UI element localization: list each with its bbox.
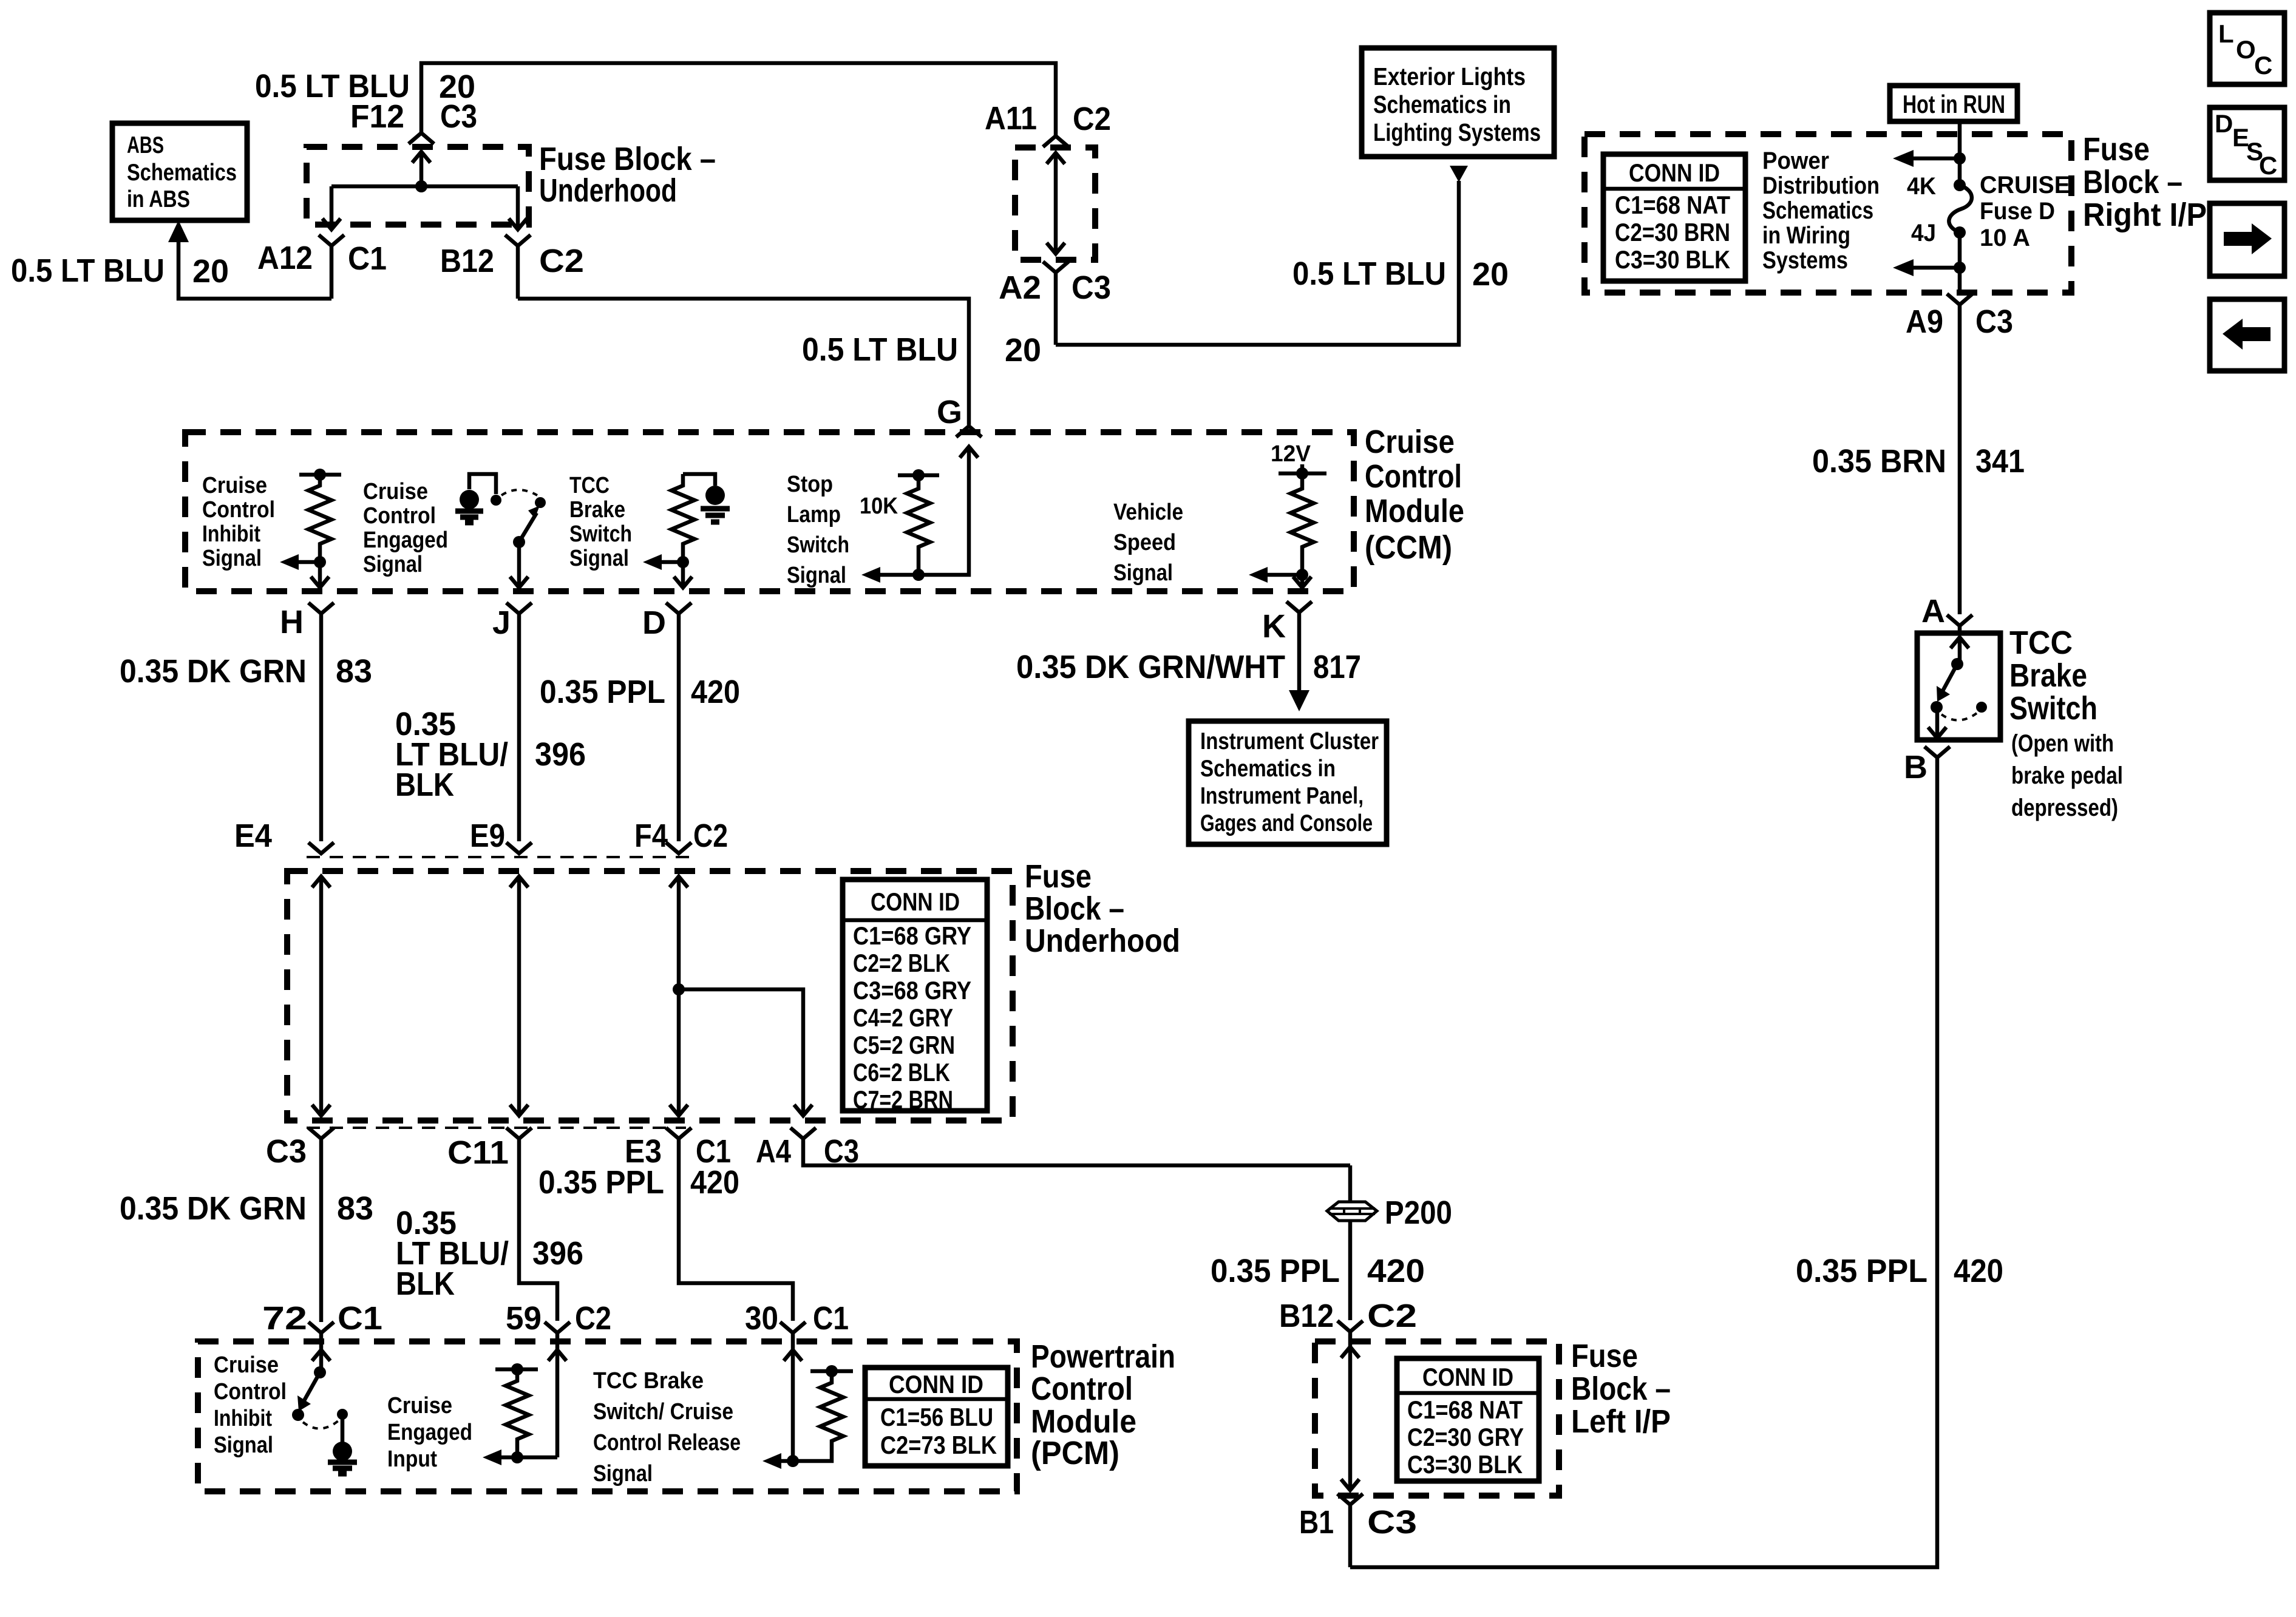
svg-text:Module: Module xyxy=(1365,493,1464,529)
thin dashed connector line (top row) xyxy=(307,856,695,858)
svg-text:C7=2 BRN: C7=2 BRN xyxy=(853,1085,953,1114)
svg-text:B1: B1 xyxy=(1299,1504,1334,1541)
svg-text:Signal: Signal xyxy=(569,546,629,571)
label Cruise Control Engaged Signal (CCM) xyxy=(363,479,448,577)
svg-text:C3: C3 xyxy=(440,98,477,135)
svg-text:C2: C2 xyxy=(575,1300,611,1337)
svg-text:O: O xyxy=(2236,35,2256,64)
svg-text:C3: C3 xyxy=(1072,269,1111,306)
svg-text:20: 20 xyxy=(1472,256,1509,293)
connector 30/C1 at PCM xyxy=(745,1300,849,1337)
arrow left bottom xyxy=(1909,266,1960,270)
svg-text:A2: A2 xyxy=(999,269,1041,306)
svg-text:420: 420 xyxy=(691,674,740,710)
PCM resistor: cruise engaged input xyxy=(483,1333,566,1465)
svg-text:C2=2 BLK: C2=2 BLK xyxy=(853,949,950,977)
wire A4/C3 down to left I/P xyxy=(1348,1165,1353,1320)
svg-text:0.35 PPL: 0.35 PPL xyxy=(538,1164,664,1201)
splice P200 xyxy=(1327,1195,1452,1231)
wire bottom run B1 to TCC brake switch B xyxy=(1350,758,1937,1567)
svg-text:BLK: BLK xyxy=(395,767,454,803)
arrow from Exterior Lights box xyxy=(1450,166,1468,182)
svg-text:Fuse Block –: Fuse Block – xyxy=(539,141,716,177)
svg-text:J: J xyxy=(492,605,511,641)
branch down to A12 with arrow xyxy=(322,186,341,229)
connector F4/C2 xyxy=(634,818,728,854)
svg-text:C3=68 GRY: C3=68 GRY xyxy=(853,976,971,1005)
svg-text:C3: C3 xyxy=(266,1133,307,1170)
svg-text:30: 30 xyxy=(745,1300,778,1337)
svg-text:Cruise: Cruise xyxy=(363,479,428,504)
label TCC Brake Switch/ Cruise Control Release Signal (PCM) xyxy=(593,1368,741,1486)
CCM resistor: stop lamp switch signal 10K xyxy=(861,447,978,583)
svg-text:C1=68 GRY: C1=68 GRY xyxy=(853,921,971,950)
svg-text:Switch/ Cruise: Switch/ Cruise xyxy=(593,1399,733,1425)
svg-text:0.35 DK GRN/WHT: 0.35 DK GRN/WHT xyxy=(1016,649,1285,685)
svg-text:C6=2 BLK: C6=2 BLK xyxy=(853,1058,950,1086)
fuse block right I/P (power distribution) dashed box xyxy=(1584,134,2071,293)
wire to ABS with arrow xyxy=(168,220,331,299)
connector C3 below underhood (H wire) xyxy=(266,1128,334,1322)
wire J through underhood block arrows both ends xyxy=(510,876,528,1116)
svg-text:G: G xyxy=(937,394,962,430)
svg-text:817: 817 xyxy=(1313,649,1361,685)
svg-text:Underhood: Underhood xyxy=(539,172,677,209)
svg-text:420: 420 xyxy=(1954,1253,2003,1289)
left arrow legend box xyxy=(2210,299,2284,371)
fuse block left I/P dashed box xyxy=(1315,1341,1559,1496)
svg-text:Instrument Panel,: Instrument Panel, xyxy=(1200,783,1364,809)
svg-text:E9: E9 xyxy=(470,818,505,854)
svg-text:Signal: Signal xyxy=(1113,560,1173,586)
right arrow legend box xyxy=(2210,203,2284,276)
svg-text:C2: C2 xyxy=(539,243,584,279)
connector B1/C3 xyxy=(1299,1494,1417,1567)
ABS Schematics reference box xyxy=(112,123,247,220)
svg-text:0.5 LT BLU: 0.5 LT BLU xyxy=(1292,256,1446,292)
connector C11 below underhood (J wire) xyxy=(447,1128,557,1321)
svg-text:Power: Power xyxy=(1762,147,1829,174)
wire below fuse xyxy=(1958,232,1962,293)
svg-text:Cruise: Cruise xyxy=(1365,424,1455,460)
connector G at CCM top xyxy=(956,426,982,437)
svg-text:E4: E4 xyxy=(234,818,272,854)
svg-text:Distribution: Distribution xyxy=(1762,172,1880,199)
svg-text:CONN ID: CONN ID xyxy=(889,1370,983,1398)
svg-text:C1: C1 xyxy=(348,240,387,277)
svg-text:C2=30 GRY: C2=30 GRY xyxy=(1407,1423,1524,1451)
connector A9/C3 xyxy=(1906,294,2013,614)
svg-text:C2=73 BLK: C2=73 BLK xyxy=(880,1431,997,1459)
TCC brake switch box with switch xyxy=(1917,626,2000,740)
svg-text:72: 72 xyxy=(262,1300,307,1337)
CONN ID table (left I/P) xyxy=(1397,1358,1539,1481)
svg-text:59: 59 xyxy=(506,1300,542,1337)
svg-text:D: D xyxy=(2215,109,2233,138)
svg-text:Fuse: Fuse xyxy=(1571,1338,1638,1374)
svg-text:Signal: Signal xyxy=(214,1432,273,1458)
DESC legend box xyxy=(2210,107,2284,180)
Hot in RUN box xyxy=(1890,86,2017,121)
svg-text:C1: C1 xyxy=(813,1300,849,1337)
svg-text:C3: C3 xyxy=(824,1133,859,1170)
svg-text:Hot in RUN: Hot in RUN xyxy=(1903,90,2005,118)
label TCC Brake Switch (Open with brake pedal depressed) xyxy=(2009,625,2123,821)
fuse CRUISE Fuse D 10 A xyxy=(1907,172,2070,251)
svg-text:brake pedal: brake pedal xyxy=(2011,762,2123,789)
Powertrain Control Module (PCM) dashed box xyxy=(198,1341,1017,1491)
svg-text:Systems: Systems xyxy=(1762,247,1848,274)
svg-text:420: 420 xyxy=(690,1164,739,1201)
svg-text:BLK: BLK xyxy=(396,1266,455,1302)
svg-text:B: B xyxy=(1904,749,1927,785)
svg-text:C11: C11 xyxy=(447,1134,509,1171)
svg-text:0.35 DK GRN: 0.35 DK GRN xyxy=(120,1190,307,1227)
wire A2 to Exterior Lights xyxy=(1056,181,1459,345)
connector A11/C2 xyxy=(985,100,1111,147)
wire through A11 block with arrows both ends xyxy=(1047,153,1065,254)
svg-text:Control: Control xyxy=(1031,1371,1133,1407)
junction dot on D wire xyxy=(673,983,685,995)
svg-text:Cruise: Cruise xyxy=(387,1393,452,1419)
svg-text:in ABS: in ABS xyxy=(127,186,190,212)
wire H through underhood block arrows both ends xyxy=(312,876,330,1116)
svg-text:C5=2 GRN: C5=2 GRN xyxy=(853,1031,955,1059)
CCM resistor: TCC brake switch signal with ground xyxy=(643,474,730,588)
svg-text:420: 420 xyxy=(1367,1253,1425,1289)
svg-text:Exterior Lights: Exterior Lights xyxy=(1373,63,1526,90)
arrow left top xyxy=(1909,157,1960,161)
svg-text:A11: A11 xyxy=(985,100,1037,137)
svg-text:0.5 LT BLU: 0.5 LT BLU xyxy=(11,253,165,289)
arrow into instrument cluster xyxy=(1289,690,1309,711)
connector 72/C1 at PCM xyxy=(262,1300,382,1337)
svg-text:4K: 4K xyxy=(1907,173,1936,200)
svg-text:Control Release: Control Release xyxy=(593,1430,741,1456)
Cruise Control Module (CCM) dashed box xyxy=(185,432,1354,591)
svg-text:Control: Control xyxy=(363,503,436,529)
connector 59/C2 at PCM xyxy=(506,1300,611,1337)
svg-text:396: 396 xyxy=(532,1235,583,1272)
svg-text:A9: A9 xyxy=(1906,303,1943,340)
PCM resistor: TCC brake switch / cruise control release xyxy=(763,1333,853,1469)
svg-text:Schematics: Schematics xyxy=(1762,197,1873,224)
svg-text:Speed: Speed xyxy=(1113,530,1176,555)
svg-text:F4: F4 xyxy=(634,818,668,854)
connector A12/C1 xyxy=(257,235,387,299)
svg-text:12V: 12V xyxy=(1271,441,1311,467)
label Cruise Engaged Input (PCM) xyxy=(387,1393,472,1472)
svg-text:B12: B12 xyxy=(1279,1298,1334,1334)
svg-text:A: A xyxy=(1921,593,1945,629)
CONN ID table (PCM) xyxy=(865,1368,1008,1466)
svg-text:H: H xyxy=(280,604,304,640)
connector E3/C1 below underhood (D wire) xyxy=(625,1128,793,1321)
svg-text:(PCM): (PCM) xyxy=(1031,1435,1119,1471)
svg-text:Fuse D: Fuse D xyxy=(1980,198,2055,225)
svg-text:Underhood: Underhood xyxy=(1025,923,1180,959)
svg-text:10 A: 10 A xyxy=(1980,225,2030,251)
connector A2/C3 xyxy=(999,262,1111,345)
CONN ID table (underhood) xyxy=(843,880,987,1114)
label TCC Brake Switch Signal (CCM) xyxy=(569,473,632,571)
fuse block underhood (top) dashed box xyxy=(307,147,529,225)
svg-text:Inhibit: Inhibit xyxy=(214,1406,272,1431)
connector E9 xyxy=(470,818,532,854)
svg-text:C1: C1 xyxy=(338,1300,382,1337)
fuse block right I/P pass-through dashed box (A11-A2) xyxy=(1015,147,1095,260)
svg-text:Control: Control xyxy=(1365,458,1462,495)
svg-text:Cruise: Cruise xyxy=(202,473,267,498)
svg-text:0.35 PPL: 0.35 PPL xyxy=(1211,1253,1340,1289)
svg-text:Schematics in: Schematics in xyxy=(1200,756,1336,782)
svg-text:Block –: Block – xyxy=(1571,1371,1671,1407)
svg-text:Schematics: Schematics xyxy=(127,160,237,186)
svg-text:Block –: Block – xyxy=(2083,164,2182,200)
connector J at CCM xyxy=(492,603,532,841)
wire label 0.35 LT BLU/ BLK (tier2) xyxy=(396,1205,509,1302)
svg-text:C: C xyxy=(2259,151,2277,180)
svg-text:Lamp: Lamp xyxy=(787,502,841,527)
svg-text:Fuse: Fuse xyxy=(2083,131,2150,168)
fuse block underhood (middle) dashed box xyxy=(287,871,1013,1120)
svg-text:CONN ID: CONN ID xyxy=(1629,158,1720,187)
svg-text:C2: C2 xyxy=(693,818,728,854)
svg-text:P200: P200 xyxy=(1385,1195,1452,1231)
junction dot above fuse xyxy=(1954,152,1966,164)
svg-text:Stop: Stop xyxy=(787,472,833,497)
svg-text:C2: C2 xyxy=(1367,1298,1417,1334)
svg-text:20: 20 xyxy=(192,253,229,290)
connector F12/C3 xyxy=(350,98,477,144)
svg-text:Gages and Console: Gages and Console xyxy=(1200,810,1373,836)
svg-text:C2=30 BRN: C2=30 BRN xyxy=(1615,218,1730,246)
svg-text:Engaged: Engaged xyxy=(363,527,448,553)
svg-text:Signal: Signal xyxy=(593,1461,653,1486)
svg-text:C: C xyxy=(2254,51,2272,80)
svg-text:Switch: Switch xyxy=(2009,690,2097,727)
svg-text:0.35 PPL: 0.35 PPL xyxy=(540,674,665,710)
svg-text:B12: B12 xyxy=(440,243,494,279)
svg-text:C4=2 GRY: C4=2 GRY xyxy=(853,1003,953,1032)
svg-text:Input: Input xyxy=(387,1446,437,1472)
interior bus wire of top fuse block xyxy=(331,185,518,189)
svg-text:CONN ID: CONN ID xyxy=(1422,1363,1513,1391)
svg-text:Inhibit: Inhibit xyxy=(202,521,260,547)
svg-text:Vehicle: Vehicle xyxy=(1113,500,1183,525)
CCM resistor: cruise control inhibit signal xyxy=(280,469,341,588)
svg-text:Control: Control xyxy=(202,497,275,523)
svg-text:ABS: ABS xyxy=(127,132,164,158)
svg-text:Engaged: Engaged xyxy=(387,1420,472,1445)
connector H at CCM xyxy=(280,603,334,841)
connector B12/C2 at left I/P xyxy=(1279,1298,1417,1334)
LOC legend box xyxy=(2210,13,2284,84)
svg-text:0.35 BRN: 0.35 BRN xyxy=(1812,443,1946,480)
label Powertrain Control Module (PCM) xyxy=(1031,1338,1175,1471)
svg-text:Left I/P: Left I/P xyxy=(1571,1403,1671,1440)
svg-text:Signal: Signal xyxy=(202,546,262,571)
svg-text:0.35 DK GRN: 0.35 DK GRN xyxy=(120,653,307,690)
svg-text:Lighting Systems: Lighting Systems xyxy=(1373,118,1541,146)
connector B at TCC brake switch xyxy=(1904,747,1950,785)
svg-text:K: K xyxy=(1262,608,1286,645)
wire top run F12 to A11 xyxy=(421,63,1056,136)
svg-text:Switch: Switch xyxy=(569,521,632,547)
junction dot at F12 bus xyxy=(415,180,427,192)
svg-text:CRUISE: CRUISE xyxy=(1980,172,2070,198)
connector K at CCM xyxy=(1262,602,1312,695)
svg-text:C3=30 BLK: C3=30 BLK xyxy=(1615,245,1730,274)
svg-text:C3: C3 xyxy=(1367,1504,1417,1541)
svg-text:C3=30 BLK: C3=30 BLK xyxy=(1407,1450,1523,1479)
label Power Distribution Schematics in Wiring Systems xyxy=(1762,147,1880,274)
svg-text:0.35 PPL: 0.35 PPL xyxy=(1796,1253,1927,1289)
svg-text:C1=68 NAT: C1=68 NAT xyxy=(1615,191,1730,219)
label Cruise Control Module (CCM) xyxy=(1365,424,1464,566)
svg-text:Brake: Brake xyxy=(569,497,625,523)
label Cruise Control Inhibit Signal (CCM) xyxy=(202,473,275,571)
connector D at CCM xyxy=(642,603,691,841)
svg-text:Signal: Signal xyxy=(787,563,846,588)
svg-text:Cruise: Cruise xyxy=(214,1352,279,1378)
svg-text:depressed): depressed) xyxy=(2011,795,2118,821)
svg-text:Right I/P: Right I/P xyxy=(2083,197,2207,233)
label Stop Lamp Switch Signal (CCM) xyxy=(787,472,849,588)
wire through left I/P block arrows both ends xyxy=(1341,1332,1359,1490)
svg-text:CONN ID: CONN ID xyxy=(871,887,960,916)
wire from Hot in RUN down to fuse xyxy=(1958,121,1962,185)
svg-text:10K: 10K xyxy=(860,493,898,519)
CCM switch: cruise control engaged signal with ground xyxy=(455,474,546,588)
svg-text:C2: C2 xyxy=(1073,101,1111,137)
svg-text:Schematics in: Schematics in xyxy=(1373,90,1511,118)
svg-text:83: 83 xyxy=(336,653,372,690)
svg-text:0.5 LT BLU: 0.5 LT BLU xyxy=(802,331,958,368)
svg-text:Powertrain: Powertrain xyxy=(1031,1338,1175,1375)
wire B12 to node G xyxy=(518,299,969,425)
svg-text:TCC Brake: TCC Brake xyxy=(593,1368,704,1394)
svg-text:396: 396 xyxy=(535,736,586,773)
CONN ID table (right I/P) xyxy=(1603,154,1745,281)
svg-text:4J: 4J xyxy=(1911,220,1936,246)
arrow up into F12 inside top fuse block xyxy=(412,152,430,186)
junction dot below fuse xyxy=(1954,262,1966,274)
Instrument Cluster reference box xyxy=(1189,721,1387,844)
label Cruise Control Inhibit Signal (PCM) xyxy=(214,1352,287,1458)
svg-text:TCC: TCC xyxy=(569,473,610,498)
svg-text:C1=68 NAT: C1=68 NAT xyxy=(1407,1395,1523,1424)
connector A4/C3 below underhood xyxy=(756,1128,1350,1170)
svg-text:(CCM): (CCM) xyxy=(1365,529,1452,566)
svg-text:L: L xyxy=(2218,19,2234,48)
PCM switch: cruise control inhibit with ground xyxy=(292,1333,357,1474)
svg-text:Instrument Cluster: Instrument Cluster xyxy=(1200,728,1379,754)
branch wire to A4 xyxy=(679,989,812,1116)
branch down to B12 with arrow xyxy=(509,186,527,229)
wire D through underhood block arrows both ends xyxy=(670,876,688,1116)
svg-text:Module: Module xyxy=(1031,1403,1136,1440)
svg-text:F12: F12 xyxy=(350,98,404,135)
svg-text:Control: Control xyxy=(214,1379,287,1405)
svg-text:Block –: Block – xyxy=(1025,890,1124,927)
svg-text:Signal: Signal xyxy=(363,552,423,577)
svg-text:C3: C3 xyxy=(1975,303,2013,340)
svg-text:A12: A12 xyxy=(257,240,313,276)
svg-text:D: D xyxy=(642,605,666,641)
svg-text:83: 83 xyxy=(337,1190,373,1227)
label Vehicle Speed Signal (CCM) xyxy=(1113,500,1183,586)
wire label 0.35 LT BLU/ BLK (tier1) xyxy=(395,706,508,803)
svg-text:Fuse: Fuse xyxy=(1025,858,1092,895)
svg-text:(Open with: (Open with xyxy=(2011,730,2114,757)
connector A at TCC brake switch xyxy=(1921,593,1972,629)
CCM resistor: vehicle speed signal 12V xyxy=(1249,441,1326,588)
svg-text:C1=56 BLU: C1=56 BLU xyxy=(880,1403,993,1431)
svg-text:in Wiring: in Wiring xyxy=(1762,222,1850,249)
svg-text:A4: A4 xyxy=(756,1133,791,1170)
svg-text:Switch: Switch xyxy=(787,532,849,558)
svg-text:341: 341 xyxy=(1975,443,2025,480)
thin dashed connector line (bottom row) xyxy=(307,1127,686,1129)
svg-text:TCC: TCC xyxy=(2009,625,2073,661)
Exterior Lights reference box xyxy=(1362,48,1554,157)
connector E4 xyxy=(234,818,334,854)
label Fuse Block - Underhood (middle) xyxy=(1025,858,1180,959)
svg-text:20: 20 xyxy=(1005,332,1041,368)
connector B12/C2 xyxy=(440,235,584,299)
svg-text:Brake: Brake xyxy=(2009,657,2087,694)
label Fuse Block - Left I/P xyxy=(1571,1338,1671,1440)
